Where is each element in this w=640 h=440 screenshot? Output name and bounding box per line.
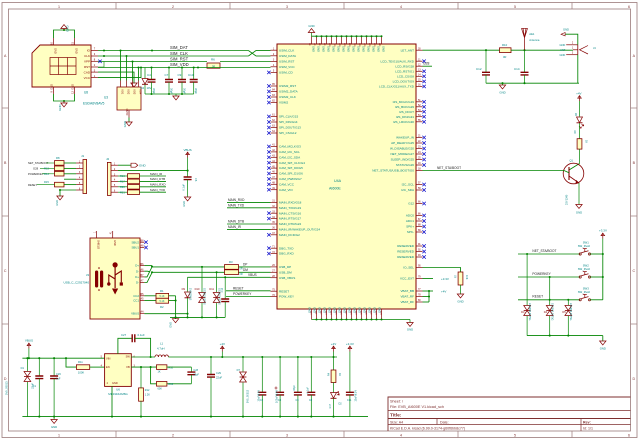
pin LCD_RST/G1 (right) bbox=[395, 69, 426, 74]
svg-text:C11: C11 bbox=[347, 399, 352, 402]
wire RESET to SW3 bbox=[518, 299, 580, 301]
svg-text:VIN: VIN bbox=[106, 357, 110, 361]
svg-text:FB: FB bbox=[126, 365, 130, 369]
svg-text:GND: GND bbox=[308, 24, 314, 28]
svg-text:33pF: 33pF bbox=[293, 385, 296, 391]
svg-text:Sheet: /: Sheet: / bbox=[390, 400, 404, 404]
svg-text:GND: GND bbox=[112, 381, 118, 385]
wire POWERKEY to SW2 bbox=[518, 276, 580, 278]
ground caps rail bbox=[173, 94, 179, 100]
svg-text:3: 3 bbox=[286, 434, 288, 438]
capacitor C28 22pF bbox=[187, 367, 199, 384]
wire NET_STA/BOOT to SW1 bbox=[518, 253, 580, 255]
svg-text:GND: GND bbox=[332, 307, 336, 313]
wire Q1 emitter to ground bbox=[578, 183, 580, 205]
svg-text:USIM2_RST: USIM2_RST bbox=[279, 84, 296, 88]
label POWERKEY to IC bbox=[226, 292, 271, 296]
pin USB_DM (left) bbox=[271, 270, 293, 275]
resistor R14 pulldown bbox=[455, 272, 469, 285]
svg-text:C7: C7 bbox=[165, 73, 169, 77]
svg-text:I/O3: I/O3 bbox=[133, 90, 136, 95]
svg-text:D11: D11 bbox=[209, 287, 214, 291]
svg-text:GND: GND bbox=[576, 211, 582, 215]
pin DBG_RXD (left) bbox=[267, 251, 294, 256]
svg-text:SIM_VDD: SIM_VDD bbox=[170, 62, 189, 67]
capacitor C2 10uF/6.3V bbox=[258, 357, 267, 417]
svg-text:GND: GND bbox=[317, 46, 321, 52]
svg-text:DBG_TXD: DBG_TXD bbox=[279, 246, 294, 250]
svg-text:ESD9B3.3ST5G: ESD9B3.3ST5G bbox=[569, 303, 572, 321]
resistor R5 bbox=[225, 270, 243, 276]
capacitor C1 bbox=[31, 358, 44, 416]
wire CC2 to R1 bbox=[144, 295, 156, 297]
ground switches bbox=[600, 341, 606, 351]
svg-text:MAIN_IR: MAIN_IR bbox=[228, 225, 242, 229]
wire R19 to ground rail bbox=[150, 383, 152, 385]
svg-text:+4V: +4V bbox=[220, 342, 225, 346]
svg-text:D7: D7 bbox=[237, 368, 241, 372]
capacitor C7 bbox=[165, 68, 174, 95]
pin AP_READY/G25 (right) bbox=[391, 140, 426, 145]
capacitor C11 10uF/6.3V bbox=[346, 390, 358, 417]
ground GND below SIM bbox=[58, 101, 67, 111]
svg-text:DBG_RXD: DBG_RXD bbox=[279, 252, 295, 256]
svg-text:SPI_DIN/G14: SPI_DIN/G14 bbox=[279, 120, 298, 124]
pin LCD_TE/G10/AUX_RXD (right) bbox=[380, 58, 425, 63]
svg-text:GND: GND bbox=[312, 307, 316, 313]
label POWERKEY at J1 bbox=[28, 172, 55, 176]
wire J1 pin6 to ground bbox=[59, 189, 76, 196]
wire bottom ground rail bbox=[22, 416, 368, 418]
resistor R20 bbox=[118, 185, 166, 190]
svg-text:EN: EN bbox=[106, 365, 110, 369]
capacitor C4 bbox=[147, 68, 156, 95]
wire SW3 right bbox=[590, 299, 603, 301]
pin VSIM2 (left) bbox=[267, 100, 288, 105]
svg-text:R10: R10 bbox=[502, 43, 508, 47]
wire CC1 to R2 bbox=[144, 300, 156, 302]
pin CAM_SPI_D1/G6 (left) bbox=[267, 171, 303, 176]
svg-text:DP: DP bbox=[243, 263, 247, 267]
wire top GND rail bbox=[312, 35, 383, 37]
svg-text:I2C_SDA: I2C_SDA bbox=[401, 188, 415, 192]
svg-text:Id: 1/1: Id: 1/1 bbox=[583, 427, 593, 431]
wire USB VBUS A4 bbox=[144, 313, 187, 315]
ground flag at J4 bbox=[561, 28, 569, 36]
wire SW1 to +3.3V rail bbox=[590, 253, 604, 277]
svg-text:GND: GND bbox=[51, 425, 57, 429]
wire IO_SEL to R14 bbox=[423, 268, 461, 273]
TVS D3 ESD9B3.3ST5G bbox=[521, 254, 531, 336]
svg-text:POW_KEY: POW_KEY bbox=[279, 295, 294, 299]
svg-text:D-: D- bbox=[136, 281, 139, 285]
pin USIM_CLK (left) bbox=[271, 47, 295, 52]
switch SW2 SW_Push bbox=[578, 264, 591, 279]
svg-text:SW_Push: SW_Push bbox=[578, 244, 591, 248]
svg-text:6: 6 bbox=[628, 5, 630, 9]
svg-text:NET_STA/BOOT: NET_STA/BOOT bbox=[437, 166, 461, 170]
pin USB_VBUS (left) bbox=[271, 275, 296, 280]
svg-text:USB_VBUS: USB_VBUS bbox=[279, 276, 295, 280]
svg-text:GND: GND bbox=[113, 240, 116, 246]
wire J4 pin3 to ground rail bbox=[577, 55, 579, 83]
connector J2 bbox=[106, 157, 118, 195]
label RESET at SW3 bbox=[532, 295, 543, 299]
wire USB_DP net bbox=[152, 266, 271, 268]
svg-text:LCD_RS/G28: LCD_RS/G28 bbox=[395, 64, 414, 68]
pin RESERVED (right) bbox=[397, 254, 426, 259]
svg-text:D: D bbox=[632, 377, 635, 381]
label SIM_RST bbox=[170, 56, 189, 61]
svg-text:GND: GND bbox=[70, 84, 74, 90]
svg-text:GND: GND bbox=[49, 84, 53, 90]
svg-text:AE1: AE1 bbox=[529, 32, 535, 36]
bottom GND pins of U4A bbox=[307, 307, 381, 320]
svg-text:0R: 0R bbox=[240, 267, 243, 270]
svg-text:ADC1: ADC1 bbox=[406, 219, 414, 223]
svg-text:VCC_EXT: VCC_EXT bbox=[400, 277, 414, 281]
pin RESERVED (right) bbox=[397, 243, 426, 248]
capacitor C3 100uF/6.3V polarized bbox=[275, 357, 285, 417]
svg-text:Size: A4: Size: A4 bbox=[390, 420, 403, 424]
TVS D11 ESD9B3.3ST5G on DM bbox=[209, 272, 220, 317]
svg-text:R6: R6 bbox=[211, 58, 215, 62]
svg-text:LET_ANT: LET_ANT bbox=[401, 48, 415, 52]
diode D9 1N5819WS on VBUS bbox=[182, 277, 192, 317]
pin STATUS/G26 (right) bbox=[396, 162, 426, 167]
svg-text:1N5819WS: 1N5819WS bbox=[189, 288, 192, 301]
svg-text:MAIN_IR/WAKEUP_OUT/G24: MAIN_IR/WAKEUP_OUT/G24 bbox=[279, 228, 320, 232]
ground USB rail bbox=[169, 317, 179, 327]
svg-text:R19: R19 bbox=[168, 383, 173, 386]
svg-text:1.2K: 1.2K bbox=[145, 394, 150, 397]
svg-text:RESERVED: RESERVED bbox=[397, 255, 415, 259]
top GND pins of U4A bbox=[310, 36, 386, 52]
svg-text:C12: C12 bbox=[476, 67, 482, 71]
wire +4V output rail bbox=[210, 356, 337, 358]
svg-text:C9: C9 bbox=[178, 73, 182, 77]
svg-text:GND: GND bbox=[367, 307, 371, 313]
svg-text:+3.3V: +3.3V bbox=[441, 277, 449, 281]
svg-text:VCC: VCC bbox=[84, 76, 91, 80]
svg-text:SW_Push: SW_Push bbox=[578, 290, 591, 294]
no-connect SBU pins bbox=[144, 241, 147, 250]
svg-text:USIM_CLK: USIM_CLK bbox=[279, 48, 294, 52]
svg-text:SBU2: SBU2 bbox=[131, 240, 139, 244]
svg-text:R3: R3 bbox=[229, 260, 233, 264]
svg-text:USIM_VCC: USIM_VCC bbox=[279, 65, 296, 69]
svg-text:0.1uF: 0.1uF bbox=[138, 333, 145, 337]
pin IO_SEL (right) bbox=[403, 265, 422, 270]
capacitor C10 bbox=[188, 68, 198, 95]
wire SIM top GND bbox=[54, 29, 75, 38]
svg-text:RESET: RESET bbox=[532, 295, 543, 299]
pin MAIN_RXD/G18 (left) bbox=[271, 200, 302, 205]
resistor R15 bbox=[55, 182, 77, 187]
label RESET at J1 bbox=[28, 180, 55, 187]
label G28 at J1 bbox=[33, 167, 55, 171]
svg-text:3: 3 bbox=[286, 5, 288, 9]
wire SIM CAD to ground bbox=[98, 72, 134, 83]
svg-text:GND: GND bbox=[560, 43, 566, 47]
pin LCD_RS/G28 (right) bbox=[395, 63, 422, 68]
svg-text:GND: GND bbox=[407, 328, 413, 332]
pin I2S_MCLK/G19 (right) bbox=[393, 99, 426, 104]
svg-text:+3.3V: +3.3V bbox=[599, 229, 607, 233]
svg-text:I2S_LRCK/G30: I2S_LRCK/G30 bbox=[393, 120, 414, 124]
svg-text:4: 4 bbox=[400, 434, 402, 438]
svg-text:AP_READY/G25: AP_READY/G25 bbox=[391, 141, 414, 145]
svg-text:D1: D1 bbox=[21, 366, 25, 370]
svg-text:0.1uF: 0.1uF bbox=[307, 387, 310, 394]
power +3.3V above SW1 bbox=[599, 229, 607, 255]
svg-text:I2S_DOUT: I2S_DOUT bbox=[399, 110, 414, 114]
svg-text:5V0_S0513: 5V0_S0513 bbox=[247, 389, 250, 403]
svg-text:CC1: CC1 bbox=[133, 299, 139, 303]
svg-text:G28: G28 bbox=[33, 167, 39, 171]
pin WAKEUP_IN (right) bbox=[396, 135, 426, 140]
zener D4 10V bbox=[141, 68, 152, 95]
svg-text:MAIN_RTS/G17: MAIN_RTS/G17 bbox=[279, 217, 301, 221]
ground antenna rail bbox=[499, 83, 505, 94]
svg-text:R16: R16 bbox=[120, 174, 125, 178]
wire LET_ANT bbox=[423, 49, 500, 51]
pin I2S_DOUT (right) bbox=[399, 109, 426, 114]
svg-text:GND: GND bbox=[347, 307, 351, 313]
svg-text:R21: R21 bbox=[120, 190, 125, 194]
capacitor C9 bbox=[178, 68, 187, 95]
svg-text:R12: R12 bbox=[145, 389, 150, 392]
connector J1 bbox=[76, 154, 87, 194]
resistor R21 bbox=[118, 190, 166, 195]
power +4V above D6 bbox=[576, 91, 581, 116]
svg-text:GND: GND bbox=[600, 347, 606, 351]
svg-text:GND: GND bbox=[352, 307, 356, 313]
svg-text:VSIM2: VSIM2 bbox=[279, 101, 288, 105]
svg-text:CAM_VIO: CAM_VIO bbox=[279, 188, 293, 192]
svg-text:CAM_SPI_D0/G5: CAM_SPI_D0/G5 bbox=[279, 166, 303, 170]
svg-text:D+: D+ bbox=[135, 264, 139, 268]
svg-text:SIM_CLK: SIM_CLK bbox=[170, 51, 188, 56]
svg-text:C26: C26 bbox=[56, 372, 61, 376]
svg-text:GND: GND bbox=[66, 26, 70, 32]
resistor R17 bbox=[118, 179, 166, 184]
title block bbox=[388, 397, 631, 431]
svg-text:GND: GND bbox=[357, 307, 361, 313]
pin W_DISABLE/G20 (right) bbox=[390, 146, 426, 151]
svg-text:1K: 1K bbox=[585, 140, 588, 143]
pin USIM_CD (left) bbox=[267, 70, 293, 75]
svg-text:VBAT_RF: VBAT_RF bbox=[401, 295, 415, 299]
resistor R4 vertical bbox=[328, 357, 341, 383]
label MAIN_IR bbox=[227, 225, 271, 229]
svg-text:R1?: R1? bbox=[329, 403, 332, 408]
svg-text:R13: R13 bbox=[44, 167, 49, 171]
svg-text:DM: DM bbox=[243, 268, 248, 272]
pin MAIN_TXD/G19 (left) bbox=[271, 205, 302, 210]
svg-text:CAM_SPI_CLK/G4: CAM_SPI_CLK/G4 bbox=[279, 161, 305, 165]
resistor R13 bbox=[44, 166, 76, 171]
svg-text:J2: J2 bbox=[106, 157, 110, 161]
pin CAM_I2C_SCL (left) bbox=[267, 149, 300, 154]
svg-text:5.1K: 5.1K bbox=[160, 295, 165, 298]
svg-text:POWERKEY: POWERKEY bbox=[532, 272, 551, 276]
power VBUS above J2 bbox=[184, 148, 192, 177]
svg-text:+4V: +4V bbox=[441, 290, 446, 294]
svg-text:MAIN_RXD/G18: MAIN_RXD/G18 bbox=[279, 201, 302, 205]
svg-text:MAIN_RXD: MAIN_RXD bbox=[228, 198, 245, 202]
svg-text:MAIN_RXD: MAIN_RXD bbox=[150, 183, 166, 187]
svg-text:I/O4: I/O4 bbox=[139, 90, 142, 95]
svg-text:6: 6 bbox=[628, 434, 630, 438]
svg-text:GND: GND bbox=[372, 307, 376, 313]
svg-text:R15: R15 bbox=[44, 180, 49, 184]
svg-text:LCD_DOUT/G9: LCD_DOUT/G9 bbox=[393, 80, 415, 84]
pin MAIN_RTS/G17 (left) bbox=[267, 216, 301, 221]
svg-text:GND: GND bbox=[54, 48, 58, 54]
capacitor C12 bbox=[476, 50, 490, 83]
svg-text:R8: R8 bbox=[56, 156, 60, 160]
svg-text:Antenna: Antenna bbox=[529, 38, 540, 42]
label NET_STA/BOOT from IC bbox=[437, 166, 461, 170]
svg-text:IO_SEL: IO_SEL bbox=[403, 266, 414, 270]
ground main rail bbox=[51, 417, 57, 429]
svg-text:J1: J1 bbox=[81, 154, 85, 158]
svg-text:C14: C14 bbox=[514, 67, 520, 71]
label MAIN_RXD bbox=[227, 198, 271, 202]
pin DBG_TXD (left) bbox=[267, 245, 294, 250]
svg-text:MAIN_TXD: MAIN_TXD bbox=[150, 188, 166, 192]
svg-text:GND: GND bbox=[123, 121, 127, 127]
label MAIN_DTR at J2 bbox=[150, 177, 165, 181]
pin USIM_RST (left) bbox=[271, 59, 295, 64]
svg-text:GND: GND bbox=[563, 28, 569, 32]
TVS D4 ESD9B3.3ST5G at switches bbox=[544, 277, 554, 336]
pin SPI_CLK/G15 (left) bbox=[267, 114, 298, 119]
svg-text:MAIN_DTB: MAIN_DTB bbox=[228, 220, 244, 224]
svg-text:5: 5 bbox=[514, 434, 516, 438]
svg-text:I2S_MCLK/G19: I2S_MCLK/G19 bbox=[393, 100, 415, 104]
power +4V right bbox=[331, 342, 336, 357]
pin USIM2_DATA (left) bbox=[267, 89, 298, 94]
wire SIM_CLK bbox=[98, 55, 248, 57]
svg-text:LCD_CS/G8: LCD_CS/G8 bbox=[397, 74, 414, 78]
svg-text:ESD9B3.3ST5G: ESD9B3.3ST5G bbox=[528, 303, 531, 321]
pin I2S_BCK/G29 (right) bbox=[395, 104, 426, 109]
ground below U3 bbox=[123, 121, 132, 127]
pin SPK+ (right) bbox=[406, 224, 426, 229]
wire VBAT join bbox=[423, 290, 434, 302]
ground below R14 bbox=[457, 294, 463, 304]
svg-text:MAIN_DTR/G22: MAIN_DTR/G22 bbox=[279, 222, 301, 226]
pin USB_DP (left) bbox=[271, 264, 292, 269]
svg-text:CAM_MCLK/G3: CAM_MCLK/G3 bbox=[279, 145, 301, 149]
wire RST jog bbox=[98, 62, 104, 68]
svg-text:SBU1: SBU1 bbox=[131, 246, 139, 250]
svg-text:Title:: Title: bbox=[390, 413, 402, 419]
capacitor C6 bbox=[182, 177, 199, 197]
switch SW3 SW_Push bbox=[578, 286, 591, 301]
wire USB_VBUS net bbox=[188, 276, 271, 278]
svg-text:30pF: 30pF bbox=[152, 88, 156, 94]
svg-text:D3: D3 bbox=[521, 310, 525, 314]
wire J2 pin2 to VBUS bbox=[118, 170, 189, 172]
svg-text:RESET: RESET bbox=[28, 183, 37, 187]
svg-text:R20: R20 bbox=[120, 185, 125, 189]
wire U6 GND to rail bbox=[111, 386, 113, 416]
svg-text:4: 4 bbox=[400, 5, 402, 9]
svg-text:CAM_SPI_D1/G6: CAM_SPI_D1/G6 bbox=[279, 172, 303, 176]
svg-text:G12: G12 bbox=[408, 202, 414, 206]
svg-text:GND: GND bbox=[457, 300, 463, 304]
svg-text:File: EVB_AI600E V1.kicad_sch: File: EVB_AI600E V1.kicad_sch bbox=[390, 405, 444, 409]
svg-text:GND: GND bbox=[139, 164, 147, 168]
svg-text:R17: R17 bbox=[120, 180, 125, 184]
svg-text:SPI_DOUT/G13: SPI_DOUT/G13 bbox=[279, 126, 301, 130]
svg-text:GND: GND bbox=[312, 46, 316, 52]
svg-text:G28: G28 bbox=[423, 62, 430, 66]
svg-text:NET_STA/BOOT: NET_STA/BOOT bbox=[532, 249, 556, 253]
svg-text:USIM_RST: USIM_RST bbox=[279, 60, 295, 64]
pin USIM_DATA (left) bbox=[271, 53, 297, 58]
wire switches ground rail bbox=[527, 335, 603, 341]
svg-text:USIM_DATA: USIM_DATA bbox=[279, 54, 297, 58]
USB connector J3 USB_C_C2927040 bbox=[63, 231, 144, 319]
label MAIN_TXD bbox=[227, 203, 271, 207]
wire D+ merge bbox=[144, 265, 153, 276]
svg-text:5.1K: 5.1K bbox=[160, 300, 165, 303]
ESD protection U3 ESDA6V8AV5 bbox=[83, 81, 142, 118]
svg-text:W_DISABLE/G20: W_DISABLE/G20 bbox=[390, 147, 414, 151]
svg-text:NET_MODE/G27: NET_MODE/G27 bbox=[390, 152, 414, 156]
svg-text:SIM_RST: SIM_RST bbox=[170, 56, 189, 61]
pin MAIN_CTS/G16 (left) bbox=[267, 210, 301, 215]
svg-text:RESERVED: RESERVED bbox=[397, 244, 415, 248]
wire main input rail bbox=[22, 357, 104, 359]
svg-text:1K: 1K bbox=[158, 371, 161, 374]
pin RESET (left) bbox=[271, 288, 290, 293]
svg-text:D10: D10 bbox=[195, 287, 200, 291]
label VBUS near IC bbox=[248, 273, 257, 277]
svg-text:U3: U3 bbox=[104, 96, 108, 100]
pin MAIN_DTR/G22 (left) bbox=[271, 221, 302, 226]
svg-text:1uF: 1uF bbox=[56, 377, 61, 381]
svg-text:C1: C1 bbox=[33, 384, 37, 388]
pin SPI_DIN/G14 (left) bbox=[267, 119, 298, 124]
wire J2 pin1 to GND flag bbox=[118, 164, 131, 166]
wire U3 GND bbox=[128, 118, 130, 123]
svg-text:POWERKEY: POWERKEY bbox=[233, 292, 252, 296]
svg-text:+3.3V: +3.3V bbox=[346, 342, 354, 346]
svg-text:LCD_CLK/G11/AUX_TXD: LCD_CLK/G11/AUX_TXD bbox=[379, 85, 415, 89]
svg-text:I/O1: I/O1 bbox=[121, 90, 124, 95]
svg-text:C27: C27 bbox=[121, 333, 127, 337]
resistor R2 bbox=[156, 298, 169, 309]
pin SPI_DOUT/G13 (left) bbox=[267, 125, 301, 130]
svg-text:GND: GND bbox=[499, 91, 505, 95]
ground flag GND right bbox=[131, 163, 147, 167]
pin LCD_CS/G8 (right) bbox=[397, 74, 426, 79]
svg-text:R14: R14 bbox=[44, 172, 49, 176]
svg-text:C28: C28 bbox=[193, 369, 198, 372]
capacitor C13 on VBUS bbox=[221, 277, 229, 317]
pin I2C_SCL (right) bbox=[402, 182, 426, 187]
LED D2 bbox=[329, 383, 342, 417]
svg-text:ESD9B3.3ST5G: ESD9B3.3ST5G bbox=[203, 288, 205, 305]
svg-text:MAIN_TXD: MAIN_TXD bbox=[228, 203, 245, 207]
pin CAM_SPI_CLK/G4 (left) bbox=[267, 160, 305, 165]
label MAIN_IR at J2 bbox=[150, 172, 163, 176]
